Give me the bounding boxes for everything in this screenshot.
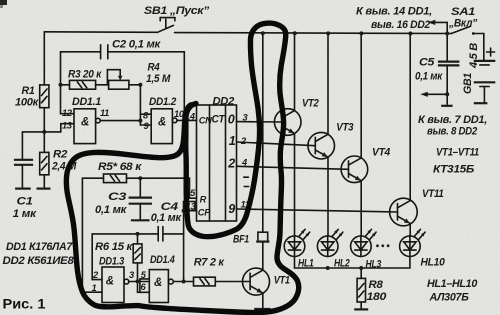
svg-text:1: 1 [229, 134, 236, 148]
svg-text:R7 2 к: R7 2 к [194, 257, 226, 269]
svg-text:VT4: VT4 [372, 147, 390, 159]
svg-text:АЛ307Б: АЛ307Б [429, 292, 469, 304]
svg-text:&: & [154, 277, 162, 289]
svg-text:&: & [158, 117, 166, 129]
svg-text:VT1: VT1 [274, 275, 290, 287]
svg-text:11: 11 [100, 108, 109, 118]
svg-text:R3 20 к: R3 20 к [68, 69, 103, 81]
svg-text:DD2: DD2 [213, 96, 235, 108]
svg-text:КТ315Б: КТ315Б [433, 164, 475, 176]
svg-text:&: & [81, 117, 89, 129]
svg-text:HL1–HL10: HL1–HL10 [427, 278, 478, 290]
svg-text:R: R [200, 195, 207, 205]
svg-text:VT11: VT11 [422, 188, 444, 200]
svg-text:Рис. 1: Рис. 1 [3, 297, 47, 312]
svg-text:C5: C5 [419, 57, 435, 69]
svg-text:R2: R2 [53, 149, 67, 161]
svg-text:HL2: HL2 [334, 258, 350, 270]
svg-text:1: 1 [92, 283, 97, 293]
svg-text:DD1.3: DD1.3 [99, 256, 124, 268]
svg-text:0: 0 [228, 113, 235, 127]
svg-text:HL10: HL10 [421, 257, 446, 269]
svg-text:R1: R1 [22, 85, 35, 97]
svg-text:SA1: SA1 [451, 6, 475, 18]
svg-text:1 мк: 1 мк [13, 208, 38, 220]
svg-text:R5* 68 к: R5* 68 к [98, 161, 143, 173]
svg-text:„Вкл”: „Вкл” [448, 18, 478, 30]
svg-text:HL1: HL1 [298, 258, 314, 270]
svg-text:CP: CP [198, 208, 211, 218]
svg-text:CT: CT [212, 114, 226, 126]
svg-text:HL3: HL3 [366, 259, 382, 271]
svg-text:выв. 16 DD2: выв. 16 DD2 [371, 19, 430, 31]
svg-text:R4: R4 [148, 62, 160, 74]
svg-text:12: 12 [62, 108, 73, 118]
svg-text:BF1: BF1 [233, 234, 249, 246]
svg-text:4,5 В: 4,5 В [468, 43, 480, 69]
svg-text:К выв. 14 DD1,: К выв. 14 DD1, [356, 6, 432, 18]
svg-text:GB1: GB1 [462, 73, 474, 94]
svg-text:0,1 мк: 0,1 мк [415, 71, 444, 83]
svg-text:C1: C1 [17, 196, 33, 208]
svg-text:1,5 М: 1,5 М [146, 73, 171, 85]
svg-text:R6 15 к: R6 15 к [95, 241, 134, 253]
svg-text:выв. 8 DD2: выв. 8 DD2 [427, 126, 477, 138]
svg-text:VT3: VT3 [336, 122, 353, 134]
svg-text:DD1 К176ЛА7: DD1 К176ЛА7 [6, 241, 73, 253]
svg-text:SB1 „Пуск”: SB1 „Пуск” [144, 5, 210, 17]
svg-text:DD1.2: DD1.2 [149, 96, 176, 108]
svg-text:0,1 мк: 0,1 мк [151, 212, 183, 224]
svg-text:CN: CN [199, 116, 212, 126]
svg-text:C2 0,1 мк: C2 0,1 мк [112, 39, 162, 51]
svg-text:R8: R8 [369, 279, 384, 291]
svg-text:VT1–VT11: VT1–VT11 [436, 147, 479, 159]
svg-text:DD2 К561ИЕ8: DD2 К561ИЕ8 [3, 255, 75, 267]
svg-text:DD1.1: DD1.1 [72, 96, 101, 108]
svg-text:100к: 100к [15, 97, 40, 109]
svg-text:2: 2 [227, 157, 235, 171]
svg-text:&: & [106, 276, 114, 288]
svg-text:VT2: VT2 [302, 98, 319, 110]
svg-text:0,1 мк: 0,1 мк [95, 204, 128, 216]
svg-text:C3: C3 [108, 191, 126, 203]
svg-text:9: 9 [228, 202, 235, 216]
svg-text:180: 180 [367, 291, 388, 303]
svg-text:К выв. 7 DD1,: К выв. 7 DD1, [418, 114, 487, 126]
svg-text:13: 13 [62, 121, 73, 131]
svg-text:DD1.4: DD1.4 [150, 254, 175, 266]
